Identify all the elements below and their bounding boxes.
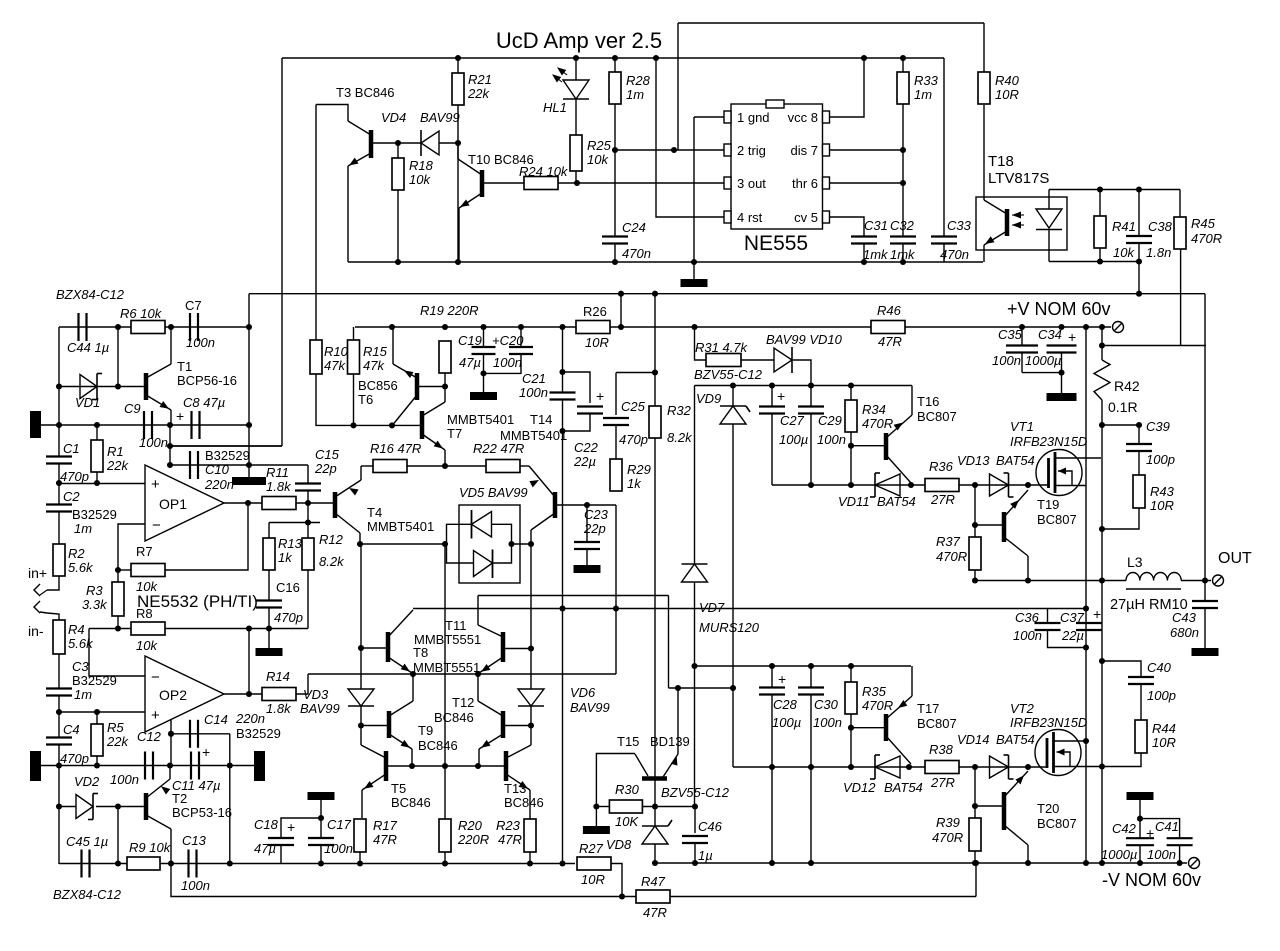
svg-text:220n: 220n: [204, 477, 234, 492]
node R26 out: [618, 324, 624, 330]
svg-text:100n: 100n: [813, 715, 842, 730]
svg-text:−: −: [151, 669, 160, 686]
node C22 top: [559, 369, 565, 375]
resistor R8: [131, 622, 165, 635]
node VD9: [730, 382, 736, 388]
svg-text:MMBT5551: MMBT5551: [413, 660, 480, 675]
svg-text:1mk: 1mk: [863, 247, 889, 262]
svg-text:VT1: VT1: [1010, 419, 1034, 434]
svg-text:VD4: VD4: [381, 110, 406, 125]
svg-text:22k: 22k: [106, 734, 129, 749]
svg-text:IRFB23N15D: IRFB23N15D: [1010, 434, 1087, 449]
svg-text:1.8k: 1.8k: [266, 479, 292, 494]
svg-text:100n: 100n: [1147, 847, 1176, 862]
svg-text:C27: C27: [780, 413, 805, 428]
svg-text:C15: C15: [315, 447, 340, 462]
node VD4-T10: [455, 140, 461, 146]
svg-text:VD5 BAV99: VD5 BAV99: [459, 485, 528, 500]
svg-text:100n: 100n: [186, 335, 215, 350]
svg-text:VD13: VD13: [957, 453, 990, 468]
svg-text:R39: R39: [936, 815, 960, 830]
svg-text:VD2: VD2: [74, 774, 100, 789]
wire VD3 column: [360, 544, 362, 689]
zener VD8: [654, 807, 656, 827]
svg-text:R24 10k: R24 10k: [519, 164, 569, 179]
capacitor C27: [759, 405, 785, 407]
capacitor C4: [46, 736, 72, 738]
resistor R30: [609, 800, 642, 813]
svg-text:LTV817S: LTV817S: [988, 170, 1049, 187]
wire: [851, 445, 884, 447]
capacitor C12: [144, 752, 146, 780]
svg-text:L3: L3: [1127, 554, 1143, 570]
svg-text:R13: R13: [278, 536, 303, 551]
transistor T20 BC807: [1002, 792, 1007, 830]
svg-text:1 gnd: 1 gnd: [737, 110, 770, 125]
ground C43: [1192, 648, 1219, 656]
wire: [1102, 425, 1139, 444]
svg-text:+V NOM 60v: +V NOM 60v: [1007, 299, 1111, 319]
wire: [165, 628, 308, 630]
diode VD7 symbol: [682, 564, 708, 582]
wire: [575, 171, 577, 183]
wire: [268, 608, 270, 629]
wire R14 out: [296, 674, 308, 694]
resistor R33: [897, 72, 909, 104]
wire oscillator ground rail: [348, 261, 983, 263]
terminal OUT: [1213, 575, 1224, 586]
svg-text:MMBT5401: MMBT5401: [447, 412, 514, 427]
wire: [983, 105, 985, 197]
svg-text:T11: T11: [445, 618, 466, 633]
svg-text:BAT54: BAT54: [996, 732, 1035, 747]
wire: [398, 142, 421, 144]
capacitor C11: [190, 752, 192, 780]
resistor R1: [91, 440, 103, 472]
node T7 out: [442, 463, 448, 469]
capacitor C28: [759, 686, 785, 688]
wire: [810, 695, 812, 864]
capacitor C17: [308, 837, 334, 839]
svg-text:MMBT5551: MMBT5551: [414, 632, 481, 647]
svg-text:10k: 10k: [1113, 245, 1135, 260]
svg-text:C9: C9: [124, 401, 141, 416]
node C27: [769, 382, 775, 388]
node: [56, 762, 62, 768]
wire crossover line: [308, 673, 616, 675]
wire: [975, 805, 1002, 807]
svg-text:10R: 10R: [995, 87, 1019, 102]
svg-text:R2: R2: [68, 546, 85, 561]
wire vd5 out: [492, 524, 512, 563]
wire C22 loop bottom: [563, 414, 591, 432]
transistor T19 BC807: [1002, 512, 1007, 542]
svg-text:R10: R10: [324, 344, 349, 359]
svg-text:C40: C40: [1147, 660, 1172, 675]
node: [1099, 526, 1105, 532]
svg-text:100n: 100n: [181, 878, 210, 893]
resistor R41: [1094, 216, 1106, 248]
svg-text:R4: R4: [68, 622, 85, 637]
node T10 emitter gnd: [455, 259, 461, 265]
wire OP2 + input: [59, 711, 145, 713]
wire R13-R12 line: [269, 522, 320, 524]
node C36 b: [1083, 644, 1089, 650]
svg-text:BZV55-C12: BZV55-C12: [661, 785, 730, 800]
wire to in+: [47, 576, 59, 590]
svg-text:BC846: BC846: [434, 710, 474, 725]
svg-text:C33: C33: [947, 218, 972, 233]
svg-text:C3: C3: [72, 659, 89, 674]
node C34: [1058, 324, 1064, 330]
capacitor C35: [1006, 344, 1038, 346]
node T12 base: [528, 722, 534, 728]
wire left box edge: [281, 58, 283, 446]
node: [559, 860, 565, 866]
svg-text:R25: R25: [587, 138, 612, 153]
svg-text:22p: 22p: [583, 521, 606, 536]
svg-text:R14: R14: [266, 669, 290, 684]
wire C40 link: [1102, 661, 1141, 677]
transistor T13 BC846: [504, 751, 509, 781]
node R17 gnd: [357, 860, 363, 866]
node C39 top: [1136, 422, 1142, 428]
svg-text:R22 47R: R22 47R: [473, 441, 524, 456]
wire: [457, 105, 459, 143]
svg-text:R29: R29: [627, 462, 651, 477]
node R8 out: [246, 625, 252, 631]
svg-text:+: +: [151, 476, 160, 493]
capacitor C1: [46, 455, 72, 457]
svg-text:in+: in+: [28, 565, 47, 581]
node: [246, 422, 252, 428]
svg-text:T1: T1: [177, 359, 192, 374]
svg-text:22µ: 22µ: [1061, 628, 1084, 643]
svg-text:R3: R3: [86, 583, 103, 598]
wire: [575, 99, 577, 135]
svg-text:BAV99: BAV99: [300, 701, 340, 716]
wire OP2 - input: [89, 629, 145, 677]
transistor T12 BC846: [501, 711, 506, 738]
node: [769, 860, 775, 866]
node R18 top: [395, 140, 401, 146]
wire T5 collector diag: [361, 745, 384, 757]
ground C23: [574, 565, 601, 573]
wire R40 feed: [983, 23, 985, 72]
wire R42 link: [1102, 345, 1206, 347]
wire T15 emitter up: [677, 688, 679, 754]
svg-text:VD1: VD1: [75, 395, 100, 410]
node VD1 left: [56, 383, 62, 389]
resistor R38: [925, 761, 959, 774]
node C45-R9: [115, 860, 121, 866]
resistor R28: [609, 72, 621, 104]
node C23 top: [584, 502, 590, 508]
wire led anode: [1048, 190, 1050, 210]
wire: [1204, 581, 1206, 602]
wire: [1061, 373, 1063, 393]
svg-text:100n: 100n: [110, 772, 139, 787]
transistor T3 BC846: [369, 130, 374, 158]
node R47 left: [619, 893, 625, 899]
svg-text:B32529: B32529: [72, 673, 117, 688]
svg-text:−: −: [152, 517, 161, 534]
svg-text:100n: 100n: [992, 353, 1021, 368]
svg-text:VD7: VD7: [699, 600, 725, 615]
node C39 link: [1099, 422, 1105, 428]
svg-text:T19: T19: [1037, 497, 1059, 512]
svg-text:C19: C19: [458, 333, 482, 348]
svg-text:BZX84-C12: BZX84-C12: [53, 887, 122, 902]
node C41 top: [1137, 816, 1143, 822]
capacitor C37: [1076, 622, 1102, 624]
resistor R4: [53, 620, 65, 654]
wire T3 base to R10: [315, 105, 317, 341]
svg-text:+: +: [596, 388, 604, 404]
ground C10: [232, 477, 266, 485]
node T16 base: [848, 443, 854, 449]
wire T8 collector line L2: [413, 608, 1086, 610]
svg-text:UcD Amp ver 2.5: UcD Amp ver 2.5: [496, 28, 662, 53]
svg-text:470p: 470p: [274, 610, 303, 625]
node VD5 left: [442, 541, 448, 547]
node C21 feed: [559, 324, 565, 330]
svg-text:470n: 470n: [622, 246, 651, 261]
transistor T5 BC846: [384, 751, 389, 781]
svg-text:R47: R47: [641, 874, 666, 889]
svg-text:C34: C34: [1038, 327, 1062, 342]
wire C25 link: [616, 372, 655, 374]
wire: [693, 262, 695, 279]
node: [1083, 860, 1089, 866]
ground C17: [308, 792, 335, 800]
led HL1: [563, 80, 589, 99]
capacitor C44: [77, 313, 79, 341]
node T17 base: [848, 725, 854, 731]
wire gate row +: [772, 484, 925, 486]
wire trig line: [615, 149, 725, 151]
wire: [353, 327, 355, 340]
wire: [595, 807, 597, 827]
wire: [810, 414, 812, 486]
wire: [614, 58, 616, 72]
svg-text:27R: 27R: [930, 492, 955, 507]
svg-text:VD6: VD6: [570, 685, 596, 700]
wire R29 column: [615, 505, 617, 674]
svg-text:R46: R46: [877, 303, 902, 318]
node: [318, 860, 324, 866]
node C10 left: [167, 462, 173, 468]
svg-text:NE5532 (PH/TI): NE5532 (PH/TI): [137, 592, 258, 611]
node OP2 +: [56, 709, 62, 715]
svg-text:OUT: OUT: [1218, 550, 1252, 567]
resistor R37: [969, 537, 981, 570]
wire to T4 base: [296, 502, 333, 504]
svg-text:22k: 22k: [467, 86, 490, 101]
svg-text:1k: 1k: [627, 476, 642, 491]
svg-text:470R: 470R: [1191, 231, 1222, 246]
svg-text:100µ: 100µ: [772, 715, 801, 730]
svg-text:C41: C41: [1155, 819, 1179, 834]
svg-text:C4: C4: [63, 722, 80, 737]
wire R8 to OP2 out: [248, 629, 250, 695]
wire pin5 cv: [830, 217, 865, 236]
svg-text:T9: T9: [418, 723, 433, 738]
wire lower ground line: [41, 765, 254, 767]
resistor R46: [871, 321, 905, 334]
wire: [902, 58, 904, 72]
svg-text:C2: C2: [63, 489, 80, 504]
svg-text:R40: R40: [995, 73, 1020, 88]
wire C46 top stem: [694, 807, 696, 834]
node R37 top: [972, 482, 978, 488]
transistor T6 BC856: [415, 373, 420, 400]
terminal input gnd +: [30, 411, 41, 438]
wire signal ground line: [41, 424, 252, 426]
mosfet VT1 IRFB23N15D: [1036, 450, 1082, 496]
svg-text:470p: 470p: [619, 432, 648, 447]
optocoupler T18 LTV817S body: [976, 197, 1067, 250]
capacitor C9: [143, 411, 145, 439]
wire VD1 line: [59, 386, 144, 388]
svg-text:C45 1µ: C45 1µ: [66, 834, 108, 849]
wire: [1138, 190, 1140, 237]
svg-text:+: +: [1068, 329, 1076, 345]
svg-text:47R: 47R: [878, 334, 902, 349]
svg-text:R9 10k: R9 10k: [129, 840, 172, 855]
svg-text:1m: 1m: [74, 687, 92, 702]
ground R30: [583, 826, 610, 834]
wire: [117, 807, 119, 864]
node R5 bottom: [94, 762, 100, 768]
ground NE555: [681, 279, 708, 287]
svg-text:R44: R44: [1152, 721, 1176, 736]
wire R32 to T15 base: [654, 438, 656, 777]
wire OP2 out: [224, 693, 262, 695]
svg-text:10k: 10k: [136, 638, 158, 653]
svg-text:HL1: HL1: [543, 100, 567, 115]
node R6 left: [115, 324, 121, 330]
svg-text:R20: R20: [458, 818, 483, 833]
node C7 right: [246, 324, 252, 330]
wire: [483, 354, 485, 392]
node L2 branch: [613, 605, 619, 611]
wire: [59, 806, 76, 808]
wire: [444, 852, 446, 864]
resistor R45: [1174, 217, 1186, 249]
svg-text:1.8n: 1.8n: [1146, 245, 1171, 260]
svg-text:BC856: BC856: [358, 378, 398, 393]
transistor T17 BC807: [884, 714, 889, 741]
wire: [1021, 353, 1023, 373]
svg-text:47R: 47R: [498, 832, 522, 847]
svg-text:22k: 22k: [106, 458, 129, 473]
wire: [615, 373, 617, 416]
wire led cathode: [1048, 230, 1050, 262]
resistor R10: [310, 340, 322, 374]
diode VD4 BAV99: [421, 131, 439, 155]
node T13 base: [475, 763, 481, 769]
svg-text:R12: R12: [319, 532, 344, 547]
wire: [1179, 845, 1181, 863]
svg-text:T18: T18: [988, 153, 1014, 170]
svg-text:47k: 47k: [324, 358, 346, 373]
wire: [1099, 248, 1101, 262]
svg-text:R45: R45: [1191, 216, 1216, 231]
wire T6 base: [417, 386, 445, 388]
svg-text:R15: R15: [363, 344, 388, 359]
svg-text:R16 47R: R16 47R: [370, 441, 421, 456]
svg-text:1.8k: 1.8k: [266, 701, 292, 716]
node: [167, 443, 173, 449]
capacitor C41: [1167, 837, 1193, 839]
svg-text:47R: 47R: [373, 832, 397, 847]
resistor R14: [262, 688, 296, 701]
node C32 gnd: [900, 259, 906, 265]
node: [769, 764, 775, 770]
wire pin7 dis: [830, 149, 904, 151]
svg-text:10R: 10R: [581, 872, 605, 887]
node R34: [848, 382, 854, 388]
wire to VT1 gate: [959, 484, 1049, 486]
svg-text:C1: C1: [63, 441, 80, 456]
zener VD9: [720, 405, 746, 407]
node C35: [1019, 324, 1025, 330]
transistor T15 BD139: [642, 776, 667, 781]
wire to pin3 out: [558, 182, 725, 184]
svg-text:R27: R27: [579, 841, 604, 856]
node R33 top: [900, 55, 906, 61]
svg-text:BC807: BC807: [917, 716, 957, 731]
node VT2 drain: [1083, 738, 1089, 744]
svg-text:C21: C21: [522, 371, 546, 386]
node: [1099, 577, 1105, 583]
node T9 base: [358, 722, 364, 728]
resistor R15: [348, 340, 360, 374]
wire T11 collector line L1: [478, 595, 669, 597]
wire opto top: [1049, 189, 1180, 191]
wire +V rail: [905, 326, 1111, 328]
resistor R3: [112, 582, 124, 616]
resistor R7: [131, 564, 165, 577]
wire: [360, 706, 362, 745]
wire: [307, 491, 309, 504]
svg-text:680n: 680n: [1170, 625, 1199, 640]
wire C22 loop top: [563, 372, 591, 403]
node: [559, 605, 565, 611]
node VD2: [56, 803, 62, 809]
wire output line: [975, 580, 1126, 582]
svg-text:5.6k: 5.6k: [68, 560, 94, 575]
svg-text:1k: 1k: [278, 550, 293, 565]
svg-text:R23: R23: [496, 818, 521, 833]
node C25 top: [652, 369, 658, 375]
wire: [654, 844, 656, 863]
wire to VT2 gate: [959, 766, 1047, 768]
transistor T16 BC807: [884, 433, 889, 460]
wire: [1022, 372, 1062, 374]
node: [480, 324, 486, 330]
svg-text:T3 BC846: T3 BC846: [336, 85, 395, 100]
wire bus to OUT: [1204, 294, 1206, 581]
node C40: [1099, 658, 1105, 664]
wire: [407, 465, 486, 467]
op-amp OP1: [145, 465, 224, 541]
svg-text:+: +: [1146, 825, 1154, 841]
wire: [1101, 327, 1103, 360]
svg-text:C36: C36: [1015, 610, 1040, 625]
ic U1 NE555 body: [731, 104, 823, 229]
